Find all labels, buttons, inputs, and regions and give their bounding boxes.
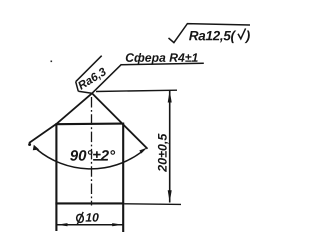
cylinder body left edge + extension line <box>55 124 57 231</box>
stray speck <box>51 61 53 63</box>
roughness symbol Ra6,3 overbar <box>76 56 102 82</box>
angle arc left arrowhead <box>33 145 40 151</box>
height dimension top extension line <box>96 90 177 91</box>
sphere note underline <box>121 63 204 65</box>
height dimension bottom extension line <box>124 203 181 206</box>
closing parenthesis <box>245 31 250 44</box>
leader line to sphere note <box>92 64 122 93</box>
diameter dimension right arrowhead <box>112 223 123 226</box>
cone left edge extended to angle arc <box>29 93 92 143</box>
diameter value text 10 <box>86 213 99 222</box>
vertical centerline (dash-dot) <box>91 97 93 206</box>
angle dimension arc <box>37 150 141 169</box>
height dimension line <box>169 91 171 203</box>
cone right edge extended to angle arc <box>92 93 148 149</box>
roughness value text Ra6,3 (rotated) <box>77 67 108 91</box>
general roughness radical sign <box>169 24 251 43</box>
roughness symbol Ra6,3 descender <box>76 82 79 92</box>
diameter dimension line <box>56 224 123 226</box>
cylinder top line (cone base) <box>55 123 124 126</box>
cylinder bottom line <box>55 202 124 204</box>
general roughness text Ra12,5( <box>189 31 236 44</box>
small check inside parentheses <box>238 28 246 38</box>
dot at left extension line end <box>28 143 31 146</box>
cylinder body right edge + extension line <box>122 124 124 232</box>
sphere note text Сфера R4±1 <box>126 53 198 64</box>
height dimension top arrowhead <box>168 90 172 102</box>
diameter value phi symbol <box>76 212 84 225</box>
roughness symbol Ra6,3 connector to apex <box>78 91 92 93</box>
height dimension bottom arrowhead <box>168 190 172 202</box>
height value text 20±0,5 (rotated) <box>158 134 169 172</box>
diameter dimension left arrowhead <box>57 223 68 226</box>
angle value text 90°±2° <box>70 150 115 161</box>
angle arc right arrowhead <box>139 148 147 154</box>
